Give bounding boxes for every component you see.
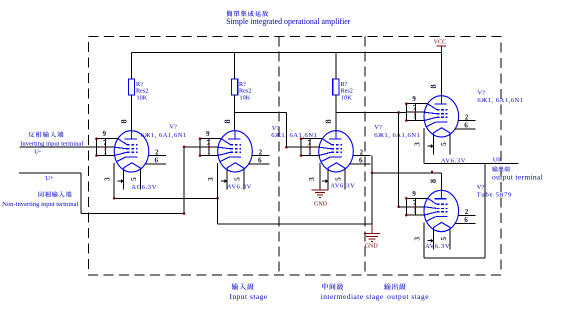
tube V3 heater voltage label [330, 183, 355, 190]
tube V2 pin number labels 9/7/1 [206, 130, 211, 155]
wire: R3 plate node branch to V4 grid box [336, 111, 406, 113]
svg-text:1: 1 [413, 207, 417, 215]
tube V5 designator label [477, 184, 512, 198]
junction at V1 cathode [113, 197, 116, 200]
svg-text:5: 5 [440, 237, 448, 241]
resistor R3 labels [341, 81, 353, 102]
wire: VCC down to V4 plate [440, 53, 442, 96]
wire: V3 cathode lead to ground [319, 163, 321, 190]
label: non-inverting input (Chinese) 同相输入端 [39, 191, 72, 197]
wire: U+ vertical segment [80, 173, 82, 214]
tube V4 pin number labels 9/7/1 [412, 95, 417, 120]
label: input stage (Chinese) 输入级 [232, 283, 254, 290]
tube V2 envelope/plate/grids/cathode/heater [218, 131, 253, 172]
svg-text:7: 7 [308, 139, 312, 147]
svg-text:10K: 10K [240, 94, 251, 101]
svg-text:7: 7 [103, 139, 107, 147]
svg-text:6: 6 [464, 122, 468, 130]
tube V5 pin 2 stub [458, 208, 476, 216]
node U0 label [493, 157, 501, 164]
wire: into V5 grid box [399, 206, 407, 208]
svg-text:AV6.3V: AV6.3V [330, 183, 355, 190]
svg-text:2: 2 [360, 148, 364, 156]
svg-text:5: 5 [130, 177, 138, 181]
tube V5 pin 6 stub [455, 216, 476, 224]
wire: V1 cathode lead down [113, 163, 115, 198]
ground GND (ground rail) [364, 224, 380, 250]
wire: resistor R2 bottom lead to tube plate [234, 95, 236, 131]
wire: V3 output to V5 plate [372, 172, 441, 174]
svg-text:output stage: output stage [387, 292, 429, 301]
svg-text:8: 8 [429, 84, 438, 88]
svg-text:3: 3 [414, 142, 422, 146]
wire: bottom of output loop [424, 257, 485, 259]
tube V1 pin 6 stub [145, 157, 166, 165]
svg-text:1: 1 [413, 113, 417, 121]
svg-text:Non-inverting input terminal: Non-inverting input terminal [2, 201, 78, 208]
svg-text:9: 9 [206, 130, 210, 138]
svg-text:1: 1 [104, 148, 108, 156]
wire: R2 plate node branch (horizontal) [235, 111, 287, 113]
label: Non-inverting input terminal [2, 201, 78, 208]
svg-text:Simple integrated operational: Simple integrated operational amplifier [226, 17, 351, 26]
wire: resistor R3 bottom lead to tube plate [335, 95, 337, 131]
svg-text:6Ж1, 6A1,6N1: 6Ж1, 6A1,6N1 [141, 132, 187, 139]
junction at V3 output node [371, 172, 374, 175]
tube V5 envelope/plate/grids/cathode/heater [424, 190, 459, 231]
tube V1 heater legs (pins 3,5) [124, 169, 141, 190]
tube V2 pin 2 stub [252, 148, 270, 156]
svg-text:1: 1 [207, 148, 211, 156]
tube V2 junction dots on pin box [199, 137, 210, 156]
svg-text:6Ж1, 6A1,6N1: 6Ж1, 6A1,6N1 [271, 132, 317, 139]
tube V5 junction dots on pin box [405, 197, 416, 216]
wire: V3 output down to ground rail [371, 173, 373, 224]
tube V1 grid pin wires (pins 9,7,1) [97, 139, 118, 156]
wire: V2 cathode lead down to ground rail [217, 163, 219, 224]
tube V2 designator label [271, 125, 317, 139]
junction at V5 grid riser [397, 111, 400, 114]
dashed boundary box of amplifier [89, 37, 502, 276]
wire: V5 cathode lead down [423, 223, 425, 258]
svg-text:10K: 10K [341, 94, 352, 101]
svg-text:3: 3 [308, 177, 316, 181]
wire: U+ bottom run to V2 grid riser [81, 213, 184, 215]
resistor R1 labels [136, 81, 148, 102]
tube V2 pin 8 label (rotated) [223, 119, 232, 123]
wire: riser to V2 grid [183, 147, 185, 214]
tube V3 junction dots on pin box [300, 137, 311, 156]
label: Inverting input terminal [20, 140, 83, 147]
tube V5 pin number labels 9/7/1 [412, 190, 417, 215]
resistor R2 labels [239, 81, 251, 102]
wire: resistor R1 top lead to bus [131, 53, 133, 80]
tube V3 pin labels 3/5 (rotated) [308, 177, 343, 181]
stage divider between input and intermediate stage [278, 37, 280, 276]
tube V1 pin number labels 9/7/1 [103, 130, 108, 155]
title (English) [226, 17, 351, 26]
svg-text:10K: 10K [137, 94, 148, 101]
svg-text:3: 3 [414, 237, 422, 241]
tube V5 grid pin wires (pins 9,7,1) [406, 198, 427, 215]
label: intermediate stage (Chinese) 中间级 [322, 283, 343, 290]
tube V4 pin 2 stub [458, 113, 476, 121]
tube V4 envelope/plate/grids/cathode/heater [424, 96, 459, 137]
power symbol VCC [434, 38, 447, 52]
tube V5 pin labels 3/5 (rotated) [414, 237, 449, 241]
svg-text:intermediate stage: intermediate stage [321, 292, 384, 301]
svg-text:9: 9 [103, 130, 107, 138]
wire: U+ horizontal segment [19, 172, 81, 174]
svg-text:2: 2 [155, 148, 159, 156]
tube V2 grid pin wires (pins 9,7,1) [200, 139, 221, 156]
tube V3 pin 8 label (rotated) [324, 119, 333, 123]
label: inverting input (Chinese) 反相输入端 [28, 131, 63, 137]
svg-text:AV6.3V: AV6.3V [227, 184, 252, 191]
wire: V5 plate lead [440, 173, 442, 191]
svg-text:3: 3 [104, 177, 112, 181]
wire: V4 cathode lead down [423, 128, 425, 164]
tube V2 heater voltage label [227, 184, 252, 191]
tube V3 pin 2 stub [353, 148, 371, 156]
wire: into V3 grid box [286, 146, 301, 148]
svg-text:6: 6 [359, 157, 363, 165]
wire: inverting input U- to V1 grid box [19, 146, 96, 148]
svg-text:Inverting input terminal: Inverting input terminal [20, 140, 83, 147]
wire: output line U0 [424, 163, 519, 165]
svg-text:2: 2 [259, 148, 263, 156]
svg-text:9: 9 [412, 95, 416, 103]
title (Chinese): 简单集成运放 [226, 11, 268, 17]
label: output terminal (Chinese) 输出端 [492, 166, 510, 171]
tube V1 pin 2 stub [148, 148, 166, 156]
tube V5 pin 8 label (rotated) [429, 179, 438, 183]
tube V3 heater legs (pins 3,5) [328, 169, 345, 190]
junction at U+ corner [183, 212, 186, 215]
svg-text:6: 6 [155, 157, 159, 165]
svg-text:3: 3 [207, 177, 215, 181]
tube V4 pin 3 arrow [428, 144, 434, 148]
label: output stage (Chinese) 输出级 [384, 283, 406, 290]
svg-text:V?: V? [169, 123, 177, 130]
wire: V2 grid feed [184, 146, 200, 148]
tube V5 heater legs (pins 3,5) [434, 229, 451, 250]
tube V4 grid pin wires (pins 9,7,1) [406, 104, 427, 121]
svg-text:2: 2 [465, 113, 469, 121]
wire: V3 pins 2/6 tie [371, 156, 373, 173]
wire: branch down to V3 grid [285, 112, 287, 147]
tube V4 junction dots on pin box [405, 102, 416, 121]
junction at V2 grid feed [183, 146, 186, 149]
resistor R3 body (Res2 10K) [333, 79, 339, 95]
node U+ label [45, 175, 54, 182]
label: intermediate stage [321, 292, 384, 301]
junction dot near V5 plate [431, 171, 433, 173]
ground GND (V3 cathode) [312, 190, 329, 208]
svg-text:V?: V? [374, 124, 382, 131]
svg-text:output terminal: output terminal [492, 173, 543, 182]
tube V3 envelope/plate/grids/cathode/heater [319, 131, 354, 172]
wire: resistor R3 top lead to bus [335, 53, 337, 80]
resistor R1 body (Res2 10K) [128, 79, 134, 95]
svg-text:U+: U+ [45, 175, 54, 182]
tube V5 heater voltage label [425, 243, 450, 250]
tube V4 pin 6 stub [455, 122, 476, 130]
wire: V+ plate supply bus [132, 52, 442, 54]
svg-text:6: 6 [464, 216, 468, 224]
svg-text:5: 5 [440, 142, 448, 146]
tube V3 designator label [374, 124, 420, 139]
svg-text:7: 7 [207, 139, 211, 147]
wire: ground rail along bottom [218, 223, 372, 225]
tube V3 pin 6 stub [350, 157, 371, 165]
label: Input stage [230, 292, 268, 301]
tube V1 designator label [141, 123, 187, 139]
svg-text:6Ж1, 6A1,6N1: 6Ж1, 6A1,6N1 [374, 132, 420, 139]
svg-text:GND: GND [314, 201, 328, 207]
wire: output right branch down [484, 164, 486, 258]
svg-text:9: 9 [412, 190, 416, 198]
tube V4 pin labels 3/5 (rotated) [414, 142, 449, 146]
tube V1 junction dots on pin box [95, 137, 106, 156]
node U- label [34, 149, 41, 156]
tube V4 pin 8 label (rotated) [429, 84, 438, 88]
stage divider between intermediate and output stage [364, 37, 366, 276]
wire: cathode bus V1-V2 [114, 197, 217, 199]
svg-text:6Ж1, 6A1,6N1: 6Ж1, 6A1,6N1 [477, 97, 523, 104]
junction at cathode bus / V2 cathode [216, 197, 219, 200]
tube V1 pin labels 3/5 (rotated) [104, 177, 139, 181]
wire: resistor R2 top lead to bus [234, 53, 236, 80]
tube V1 heater voltage label [131, 184, 157, 191]
svg-text:6: 6 [258, 157, 262, 165]
tube V2 heater legs (pins 3,5) [227, 169, 244, 190]
tube V2 pin 6 stub [249, 157, 270, 165]
resistor R2 body (Res2 10K) [231, 79, 237, 95]
svg-text:2: 2 [465, 208, 469, 216]
svg-text:5: 5 [234, 177, 242, 181]
svg-text:8: 8 [429, 179, 438, 183]
wire: resistor R1 bottom lead to tube plate [131, 95, 133, 131]
junction at V5 grid corner [397, 206, 400, 209]
svg-text:AC6.3V: AC6.3V [131, 184, 157, 191]
label: output terminal [492, 173, 543, 182]
svg-text:Input stage: Input stage [230, 292, 268, 301]
tube V3 pin 3 arrow [322, 179, 328, 183]
tube V5 pin 3 arrow [428, 239, 434, 243]
svg-text:VCC: VCC [434, 38, 447, 45]
wire: riser down to V5 grid [398, 112, 400, 206]
svg-text:GND: GND [365, 243, 379, 249]
svg-text:V?: V? [477, 89, 485, 96]
tube V4 heater legs (pins 3,5) [434, 134, 451, 155]
svg-text:8: 8 [223, 119, 232, 123]
tube V1 pin 3 arrow [118, 179, 124, 183]
svg-text:AV6.3V: AV6.3V [425, 243, 450, 250]
svg-text:Tube 5879: Tube 5879 [477, 192, 512, 199]
junction at V3 grid corner [285, 146, 288, 149]
svg-text:8: 8 [324, 119, 333, 123]
svg-text:1: 1 [308, 148, 312, 156]
svg-text:7: 7 [413, 104, 417, 112]
tube V1 envelope/plate/grids/cathode/heater [114, 131, 149, 172]
tube V3 grid pin wires (pins 9,7,1) [301, 139, 322, 156]
tube V2 pin labels 3/5 (rotated) [207, 177, 242, 181]
label: output stage [387, 292, 429, 301]
svg-text:8: 8 [119, 119, 128, 123]
svg-text:V?: V? [477, 184, 485, 191]
tube V4 heater voltage label [441, 157, 466, 164]
tube V2 pin 3 arrow [221, 179, 227, 183]
svg-text:U-: U- [34, 149, 41, 156]
tube V4 designator label [477, 89, 523, 104]
svg-text:5: 5 [335, 177, 343, 181]
svg-text:U0: U0 [493, 157, 501, 164]
svg-text:7: 7 [413, 199, 417, 207]
tube V1 pin 8 label (rotated) [119, 119, 128, 123]
tube V3 pin number labels 9/7/1 [308, 139, 313, 155]
